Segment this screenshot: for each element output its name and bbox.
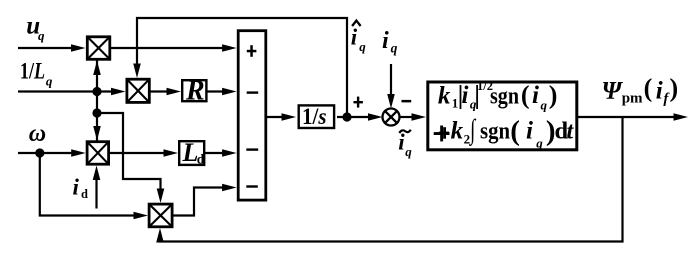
svg-text:ω: ω — [29, 121, 46, 147]
svg-text:i: i — [351, 24, 358, 49]
svg-text:(: ( — [644, 74, 653, 103]
svg-text:Ψ: Ψ — [602, 78, 624, 105]
svg-text:pm: pm — [622, 91, 643, 107]
svg-text:i: i — [73, 174, 80, 199]
svg-text:1/L: 1/L — [20, 58, 45, 83]
svg-text:q: q — [536, 135, 543, 150]
svg-text:(: ( — [521, 80, 530, 109]
svg-text:i: i — [526, 118, 533, 145]
svg-text:sgn: sgn — [480, 119, 510, 145]
svg-text:q: q — [391, 41, 398, 56]
svg-text:k: k — [451, 118, 464, 145]
svg-text:i: i — [462, 82, 469, 109]
svg-text:q: q — [405, 144, 412, 159]
svg-text:(: ( — [510, 115, 520, 147]
svg-text:q: q — [359, 39, 366, 54]
svg-text:i: i — [656, 78, 663, 105]
svg-text:sgn: sgn — [490, 83, 519, 109]
svg-text:q: q — [46, 74, 53, 89]
svg-text:R: R — [185, 76, 205, 107]
svg-text:d: d — [81, 187, 88, 201]
svg-text:): ) — [549, 80, 558, 109]
svg-text:q: q — [541, 98, 548, 113]
svg-text:q: q — [38, 28, 45, 43]
svg-text:1/s: 1/s — [302, 104, 327, 129]
svg-text:k: k — [438, 82, 451, 109]
svg-text:∫: ∫ — [468, 115, 476, 147]
svg-text:i: i — [382, 28, 389, 54]
svg-text:2: 2 — [464, 132, 471, 147]
svg-text:i: i — [532, 82, 539, 109]
svg-text:i: i — [398, 130, 405, 155]
svg-text:): ) — [670, 74, 679, 103]
svg-text:d: d — [197, 151, 205, 166]
